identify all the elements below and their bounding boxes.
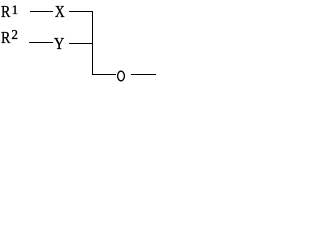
atom label R2 (R) — [1, 37, 10, 39]
atom label O (ether oxygen) — [116, 70, 126, 82]
atom label X — [55, 11, 65, 13]
bond chain to O — [92, 74, 116, 75]
vertical chain wire — [92, 11, 93, 75]
superscript 1 of R1 — [12, 9, 19, 11]
atom label R1 (R) — [1, 11, 10, 13]
bond R1-X — [30, 11, 53, 12]
bond Y to chain — [69, 43, 93, 44]
bond O to methyl — [131, 74, 156, 75]
superscript 2 of R2 — [11, 34, 18, 36]
bond R2-Y — [29, 42, 53, 43]
bond X to chain — [69, 11, 93, 12]
atom label Y — [54, 43, 64, 45]
